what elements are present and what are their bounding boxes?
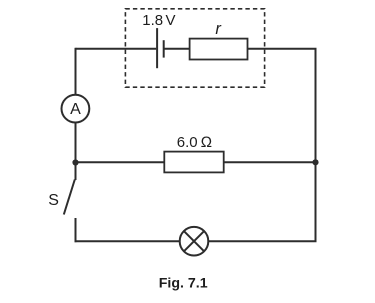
svg-text:r: r — [215, 20, 222, 38]
resistor 6.0 ohm — [164, 152, 223, 173]
node junction dot right — [312, 159, 318, 165]
lamp L1 circle — [180, 227, 209, 256]
svg-text:6.0Ω: 6.0Ω — [177, 134, 212, 151]
wire left vertical upper — [75, 48, 77, 95]
svg-text:Fig. 7.1: Fig. 7.1 — [159, 276, 208, 292]
svg-text:S: S — [48, 192, 59, 209]
switch S lower contact stub — [75, 218, 77, 242]
svg-text:1.8V: 1.8V — [142, 12, 175, 29]
wire bottom right segment — [208, 240, 317, 242]
dashed enclosure around battery and internal resistance — [125, 9, 264, 87]
node junction dot left — [72, 159, 78, 165]
wire battery to resistor r — [164, 48, 190, 50]
wire middle right segment — [224, 161, 316, 163]
battery cell B1 short plate — [163, 40, 165, 57]
wire right vertical — [315, 49, 317, 242]
wire bottom left segment — [75, 240, 181, 242]
wire left vertical lower — [75, 122, 77, 180]
wire top-left horizontal — [76, 48, 157, 50]
lamp L1 cross stroke 2 — [184, 231, 204, 251]
ammeter A — [62, 95, 90, 123]
wire middle left segment — [76, 161, 165, 163]
svg-text:A: A — [70, 101, 81, 118]
lamp L1 cross stroke 1 — [184, 231, 204, 251]
resistor r (internal resistance) — [190, 39, 248, 60]
wire resistor r to top-right corner — [248, 48, 317, 50]
switch S blade — [64, 180, 75, 215]
battery cell B1 long plate — [156, 28, 158, 68]
